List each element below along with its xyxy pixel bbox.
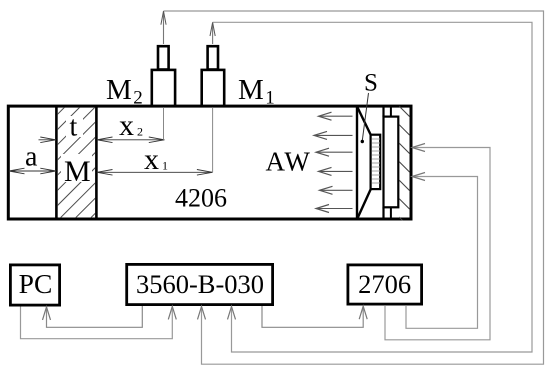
- acoustic wave arrow 2: [316, 134, 353, 136]
- sample M hatch fill: [0, 0, 309, 230]
- dimension t left arrow: [39, 139, 57, 141]
- arrow into speaker lower: [412, 173, 425, 181]
- microphone M2 axis line: [163, 80, 165, 140]
- svg-text:M: M: [64, 155, 91, 188]
- svg-text:AW: AW: [266, 147, 312, 177]
- wire amplifier to speaker lower: [406, 177, 478, 329]
- wire PC to analyzer: [21, 307, 173, 339]
- acoustic wave arrow 3: [318, 151, 353, 153]
- wire amplifier to speaker upper: [385, 148, 490, 340]
- svg-text:a: a: [25, 142, 38, 173]
- arrow PC wire into analyzer: [168, 306, 176, 319]
- wire analyzer to PC: [47, 306, 143, 327]
- magnet top stubs: [382, 106, 384, 117]
- acoustic wave arrow 6: [318, 208, 353, 210]
- speaker housing hatch: [396, 103, 414, 232]
- acoustic wave arrow 5: [321, 189, 353, 191]
- arrow analyzer wire into PC: [43, 307, 51, 320]
- sample M right face: [95, 105, 98, 220]
- svg-text:4206: 4206: [175, 184, 227, 213]
- magnet bottom stubs: [382, 207, 384, 219]
- loudspeaker cone bottom diagonal: [357, 189, 371, 219]
- wire analyzer to amplifier: [262, 306, 363, 327]
- S leader dot: [361, 140, 364, 143]
- microphone M1 axis line: [212, 80, 214, 172]
- PC box: [10, 265, 59, 305]
- acoustic wave arrow 1: [320, 115, 353, 117]
- voice coil stripes: [372, 139, 380, 183]
- acoustic wave arrow 4: [320, 170, 353, 172]
- microphone M1 body: [202, 70, 225, 106]
- arrow M1 wire into analyzer: [228, 306, 236, 319]
- dimension a arrow: [9, 170, 56, 172]
- voice coil: [371, 135, 381, 189]
- wire M1 to analyzer: [212, 22, 214, 44]
- svg-text:S: S: [364, 70, 378, 97]
- arrow analyzer wire into amplifier: [359, 306, 367, 319]
- dimension x2 arrow: [97, 139, 165, 141]
- loudspeaker cone front: [356, 106, 358, 220]
- svg-text:2706: 2706: [358, 269, 411, 299]
- svg-text:PC: PC: [19, 268, 53, 299]
- dimension x1 arrow: [97, 171, 213, 173]
- arrow M2 wire into analyzer: [198, 306, 206, 319]
- impedance tube 4206 outline: [8, 106, 411, 219]
- amplifier 2706 box: [348, 265, 422, 304]
- arrow M1 wire top: [210, 23, 215, 37]
- microphone M2 body: [152, 70, 175, 106]
- arrow M2 wire top: [161, 11, 166, 25]
- analyzer 3560-B-030 box: [127, 264, 273, 304]
- svg-text:t: t: [70, 112, 78, 143]
- wire M2 to analyzer: [163, 11, 165, 44]
- white halo under t and M labels: [66, 116, 83, 137]
- magnet block: [384, 117, 399, 208]
- svg-text:3560-B-030: 3560-B-030: [136, 269, 264, 299]
- loudspeaker cone top diagonal: [357, 107, 371, 135]
- sample M left face: [55, 105, 58, 220]
- S leader line: [362, 93, 368, 141]
- arrow into speaker upper: [412, 144, 425, 152]
